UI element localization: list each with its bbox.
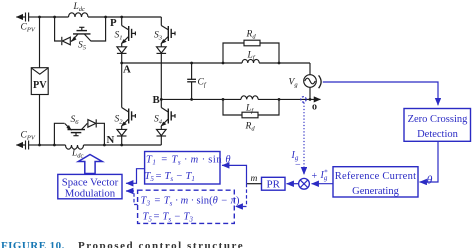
wire m (black)	[247, 183, 262, 185]
current sensor node o	[301, 97, 306, 102]
box Space Vector Modulation	[58, 174, 122, 198]
svg-text:I*g: I*g	[320, 169, 328, 183]
caption	[1, 240, 244, 248]
summing junction	[299, 178, 310, 189]
node dots	[38, 16, 311, 147]
resistor R_d top loop	[223, 40, 279, 63]
svg-text:Generating: Generating	[352, 186, 399, 197]
inductor L_f bottom	[241, 96, 258, 100]
svg-text:−: −	[295, 160, 301, 171]
IGBT S2	[122, 108, 136, 130]
wire S5 branch	[55, 17, 106, 41]
svg-text:PV: PV	[33, 80, 47, 91]
diode D3	[157, 47, 167, 100]
IGBT S3	[161, 17, 175, 47]
svg-text:o: o	[312, 102, 317, 113]
wire leg B to S4	[160, 99, 162, 107]
svg-text:Reference Current: Reference Current	[335, 171, 417, 182]
equation T1	[141, 155, 240, 224]
svg-text:Lf: Lf	[247, 51, 256, 62]
resistor R_d bottom loop	[223, 99, 279, 117]
blue texts	[62, 114, 468, 224]
svg-text:P: P	[110, 17, 117, 29]
svg-text:S5: S5	[78, 41, 87, 52]
svg-text:S4: S4	[154, 115, 163, 126]
box T3 equations dashed	[138, 190, 235, 223]
svg-text:Lf: Lf	[245, 104, 254, 115]
inductor L_f top	[242, 59, 259, 63]
svg-text:Modulation: Modulation	[65, 187, 116, 199]
wire Ig* to summing	[312, 183, 334, 185]
diode D6	[88, 119, 96, 127]
IGBT S1	[122, 17, 136, 47]
svg-text:B: B	[153, 94, 160, 106]
grid sense line to ZCD	[323, 82, 438, 105]
box Reference Current Generating	[333, 167, 418, 197]
svg-text:+: +	[312, 171, 318, 182]
wire error to PR	[287, 183, 299, 185]
IGBT S5	[72, 27, 91, 41]
grid bracket	[319, 75, 322, 88]
wire B rail	[161, 98, 320, 100]
box T1 equations	[145, 152, 220, 185]
svg-text:Detection: Detection	[417, 129, 459, 140]
svg-text:Ldc: Ldc	[71, 149, 84, 160]
dashed wire to T3 box	[236, 184, 247, 207]
diode D4	[157, 129, 167, 145]
svg-text:FIGURE 10.: FIGURE 10.	[1, 240, 65, 248]
wire T1 to SVM	[126, 169, 145, 184]
wire S6 branch	[54, 123, 104, 145]
wire PV top	[39, 17, 41, 68]
svg-text:A: A	[123, 64, 131, 76]
svg-text:T5= Ts − T3: T5= Ts − T3	[143, 212, 194, 224]
svg-text:S2: S2	[115, 115, 124, 126]
inductor L_dc bottom	[66, 145, 84, 149]
svg-text:T1 = Ts · m · sin θ: T1 = Ts · m · sin θ	[146, 155, 231, 167]
svg-text:m: m	[251, 174, 258, 184]
svg-text:S1: S1	[115, 31, 123, 42]
voltage source V_g	[304, 63, 317, 99]
svg-text:S3: S3	[154, 31, 163, 42]
svg-text:S6: S6	[71, 115, 80, 126]
capacitor C_PV top	[16, 13, 39, 22]
diode D1	[117, 47, 127, 63]
photovoltaic panel PV	[31, 68, 48, 95]
blue control elements	[58, 82, 471, 223]
svg-text:PR: PR	[266, 179, 280, 191]
IGBT S4	[161, 108, 175, 130]
measurement line I_g	[303, 103, 305, 175]
svg-text:Ldc: Ldc	[73, 2, 86, 13]
svg-text:T5= Ts − T1: T5= Ts − T1	[145, 171, 195, 183]
svg-text:Zero Crossing: Zero Crossing	[408, 114, 469, 125]
box Zero Crossing Detection	[404, 109, 471, 142]
svg-text:θ: θ	[427, 173, 433, 187]
capacitor C_f	[187, 63, 196, 99]
wire leg A to S2	[121, 63, 123, 108]
svg-text:Rd: Rd	[246, 30, 257, 41]
svg-text:CPV: CPV	[21, 131, 36, 142]
inductor L_dc top	[69, 13, 89, 17]
box PR	[262, 177, 286, 190]
diode D2	[117, 129, 127, 145]
wire to T1 box	[222, 165, 247, 183]
svg-text:Proposed control structure: Proposed control structure	[78, 240, 244, 248]
svg-text:Cf: Cf	[198, 78, 207, 89]
svg-text:N: N	[107, 134, 115, 146]
dashed wire T3 to SVM	[126, 191, 138, 205]
diode D5	[62, 37, 71, 45]
svg-text:CPV: CPV	[21, 23, 36, 34]
theta line	[420, 141, 439, 182]
wire top rail	[40, 16, 162, 18]
wire A rail	[122, 62, 310, 64]
svg-text:Rd: Rd	[245, 122, 256, 133]
wire bottom rail	[40, 144, 162, 146]
capacitor C_PV bottom	[16, 141, 39, 150]
svg-text:Vg: Vg	[289, 78, 299, 89]
black labels	[21, 2, 299, 184]
gate drive hollow arrow	[78, 155, 102, 174]
wire PV bottom	[39, 95, 41, 146]
IGBT S6	[65, 123, 88, 135]
svg-text:T3 = Ts · m · sin(θ − π): T3 = Ts · m · sin(θ − π)	[141, 196, 240, 208]
